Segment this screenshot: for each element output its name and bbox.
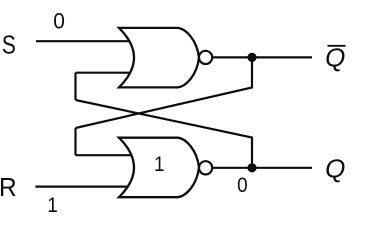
wire diagonal from top output to bottom gate input	[76, 57, 253, 128]
NOR gate U2 (bottom) body	[119, 138, 199, 198]
junction node Q	[247, 163, 256, 172]
svg-text:R: R	[0, 174, 17, 203]
wire vertical A left (Qbar feedback riser)	[74, 73, 76, 100]
wire U2 output to Q	[212, 167, 312, 169]
svg-text:S: S	[2, 31, 16, 59]
inversion bubble U1	[199, 51, 212, 64]
inversion bubble U2	[199, 161, 212, 174]
wire bottom gate upper input	[76, 154, 141, 156]
svg-text:0: 0	[53, 9, 65, 34]
svg-text:0: 0	[237, 174, 248, 197]
junction node Qbar	[247, 53, 256, 62]
wire top gate lower input	[76, 72, 141, 74]
overline of Qbar	[328, 45, 346, 47]
svg-text:1: 1	[154, 153, 165, 176]
wire vertical B left (Q feedback riser)	[74, 128, 76, 155]
wire R input	[35, 186, 140, 188]
wire S input	[36, 40, 140, 42]
svg-text:Q: Q	[325, 43, 345, 73]
svg-text:1: 1	[47, 194, 58, 217]
NOR gate U1 (top) body	[119, 28, 199, 88]
wire U1 output to Qbar	[212, 56, 312, 58]
wire diagonal from bottom output to top gate input	[76, 100, 253, 168]
svg-text:Q: Q	[325, 154, 345, 184]
